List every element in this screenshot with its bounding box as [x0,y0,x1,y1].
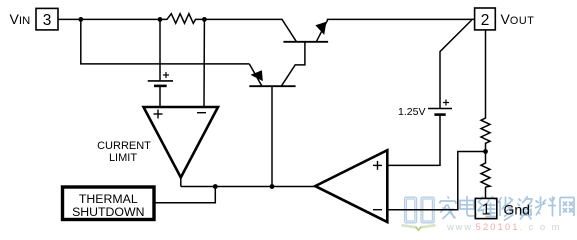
svg-text:SHUTDOWN: SHUTDOWN [72,205,144,219]
svg-text:3: 3 [43,12,52,29]
svg-text:LIMIT: LIMIT [109,152,137,164]
svg-text:CURRENT: CURRENT [97,140,151,152]
svg-text:2: 2 [481,12,490,29]
svg-text:1.25V: 1.25V [398,106,425,118]
svg-text:THERMAL: THERMAL [79,192,138,206]
